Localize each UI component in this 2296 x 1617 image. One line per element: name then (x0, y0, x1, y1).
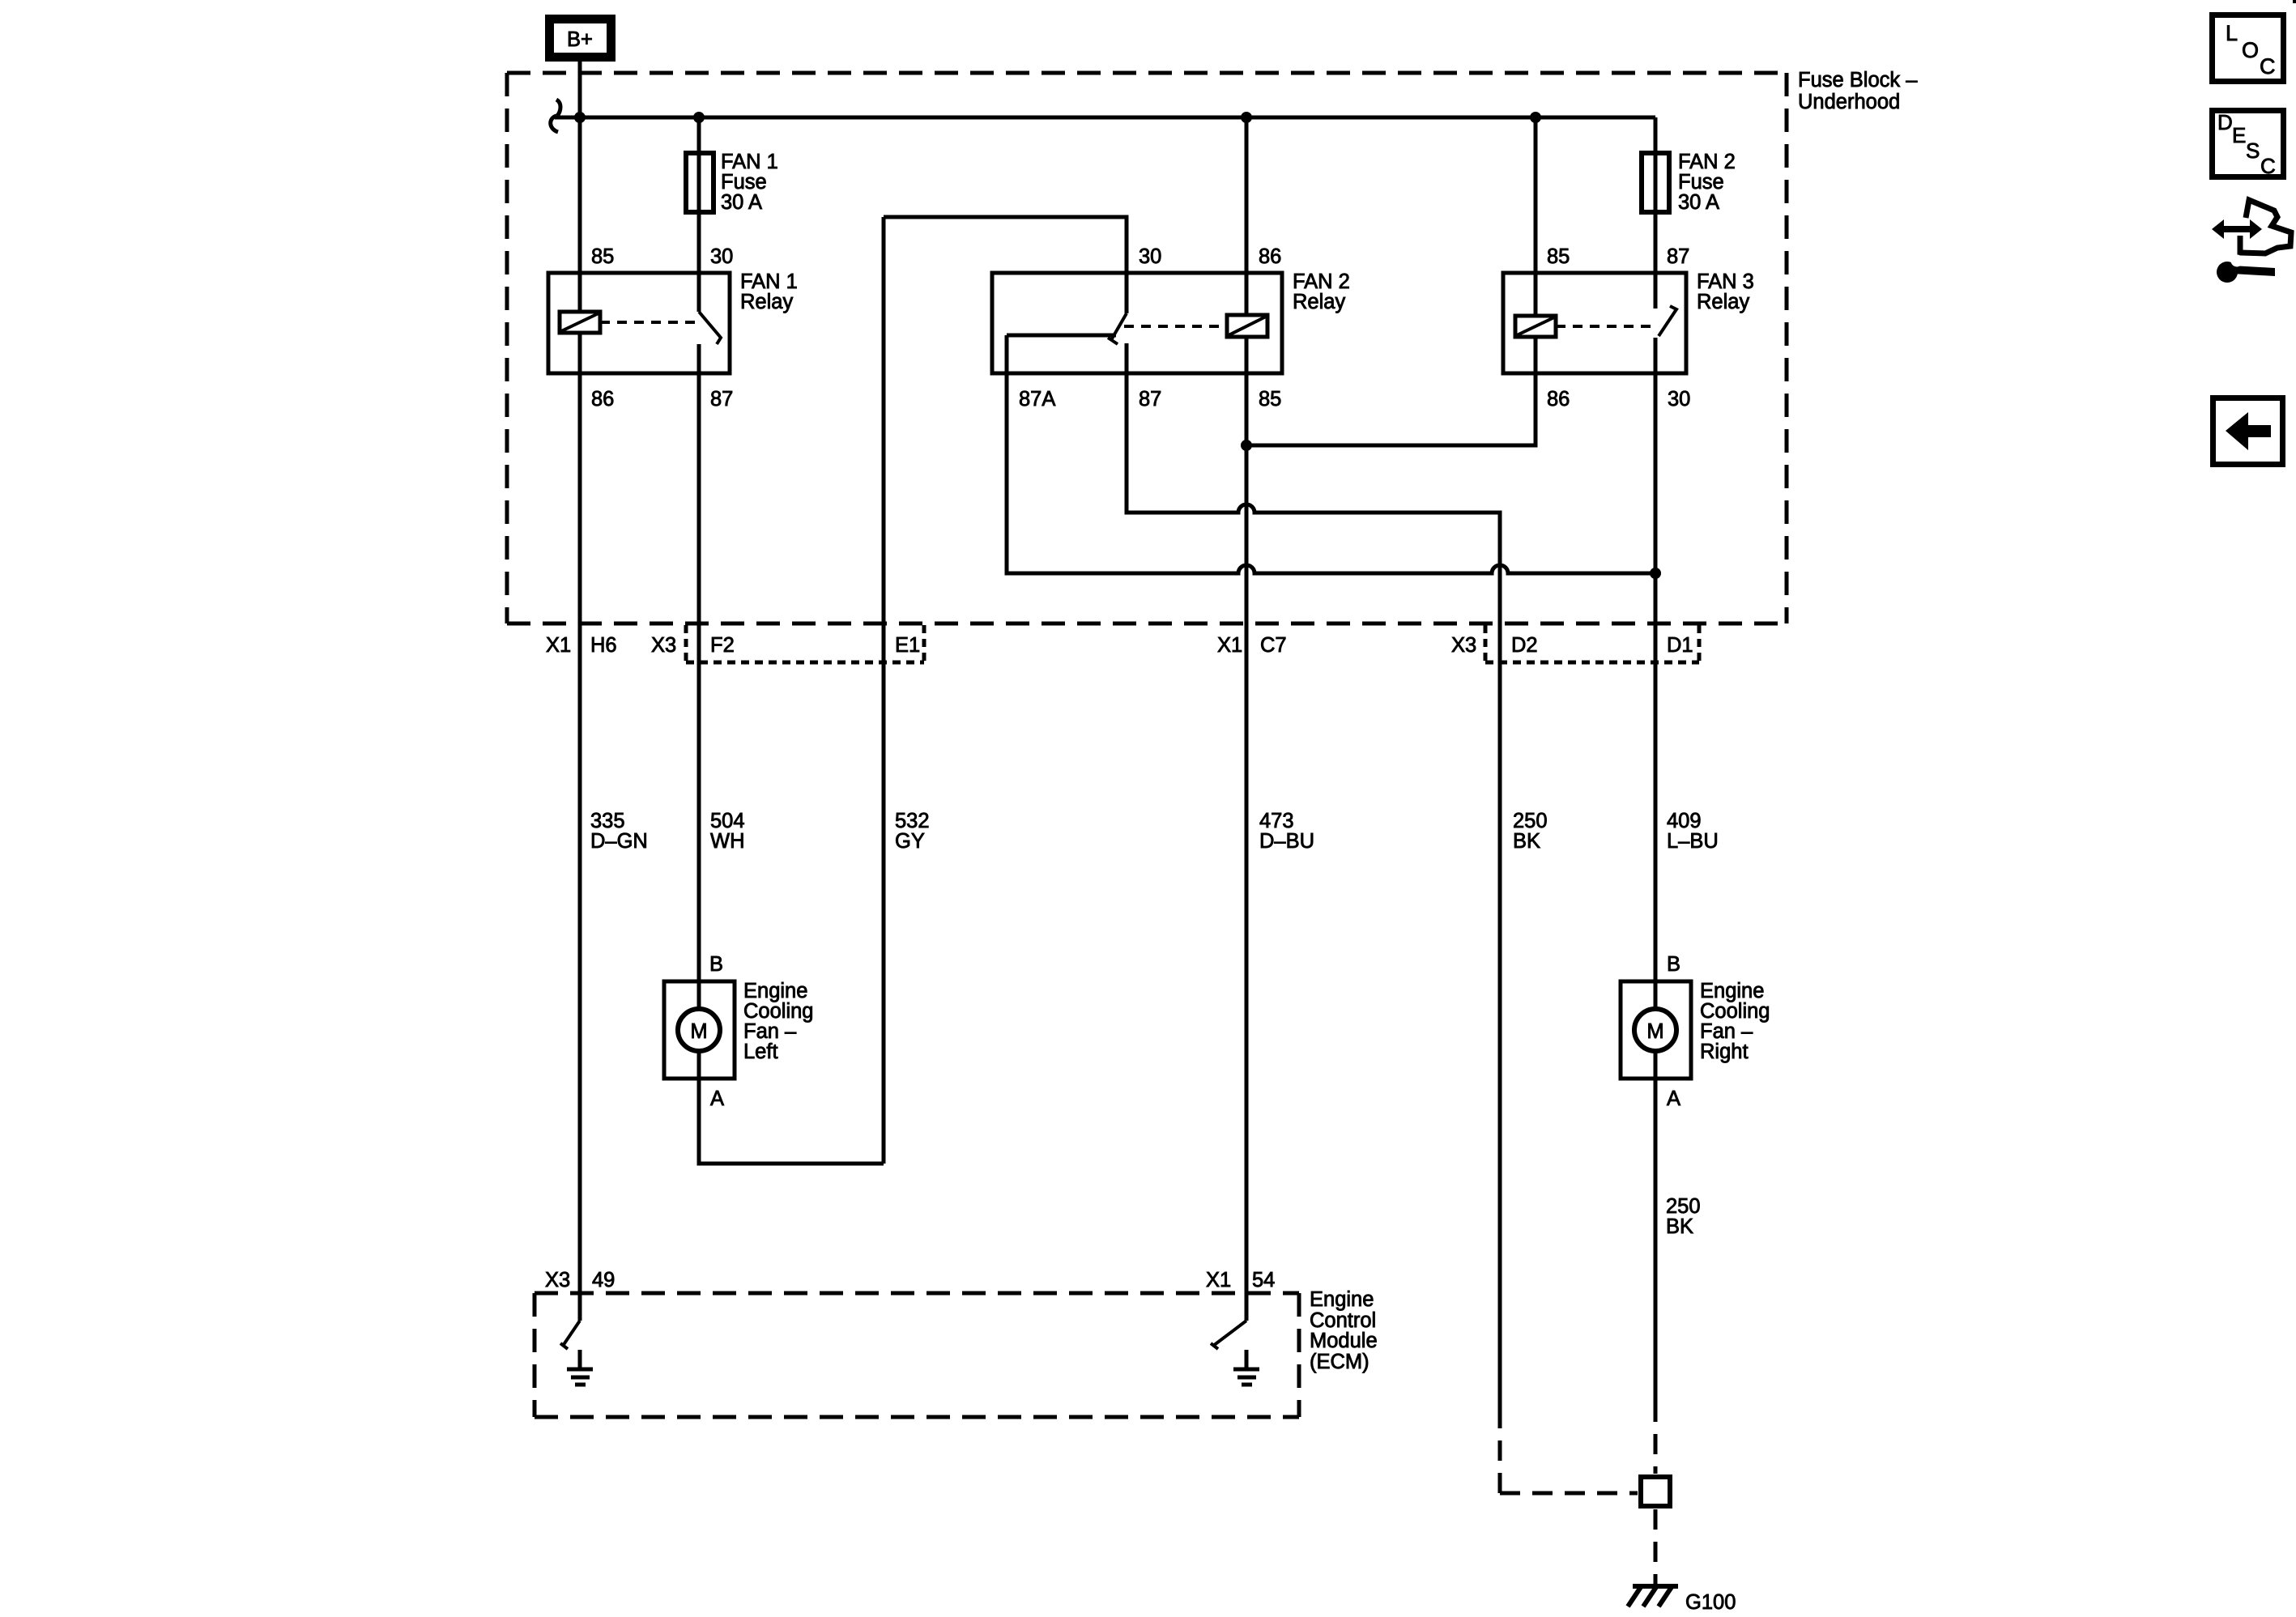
motor M1 left fan (664, 953, 813, 1110)
svg-text:Fuse Block –: Fuse Block – (1798, 69, 1918, 91)
connector labels under fuse block (546, 634, 1693, 657)
svg-text:335: 335 (590, 810, 625, 832)
svg-text:250: 250 (1513, 810, 1548, 832)
svg-text:M: M (1646, 1020, 1663, 1043)
icon LOC (2213, 15, 2284, 82)
svg-text:87: 87 (1667, 245, 1689, 268)
svg-text:S: S (2246, 138, 2260, 163)
node: bus at FAN1 fuse (693, 112, 705, 123)
svg-text:30: 30 (710, 245, 733, 268)
svg-text:X1: X1 (1206, 1269, 1231, 1291)
svg-text:Fuse: Fuse (721, 171, 767, 194)
wire FAN3 85 from bus (1534, 117, 1538, 316)
svg-text:Engine: Engine (743, 980, 807, 1002)
coil-switch dashed link (600, 321, 695, 324)
icon DESC (2213, 110, 2284, 178)
svg-text:54: 54 (1252, 1269, 1275, 1291)
svg-text:BK: BK (1513, 830, 1540, 853)
switch blade FAN2 (1108, 313, 1127, 344)
svg-text:FAN 1: FAN 1 (740, 270, 798, 293)
svg-text:86: 86 (1259, 245, 1281, 268)
svg-text:A: A (710, 1087, 724, 1110)
icon wrench (2217, 255, 2275, 283)
wire tie to FAN3 86 (1246, 337, 1536, 445)
svg-text:49: 49 (592, 1269, 615, 1291)
wire FAN2 87A to FAN3 30 net (1007, 335, 1655, 573)
svg-text:87: 87 (710, 388, 733, 411)
wire labels (590, 810, 1719, 853)
svg-text:L: L (2226, 21, 2238, 45)
svg-text:30: 30 (1668, 388, 1690, 411)
icon back arrow (2213, 398, 2283, 465)
svg-text:504: 504 (710, 810, 745, 832)
svg-text:C: C (2260, 54, 2276, 79)
wire bus to FAN2 fuse (1654, 117, 1658, 309)
ground inside ECM right (1233, 1350, 1259, 1385)
connector ticks X3-D2-D1 box (1485, 625, 1699, 662)
svg-text:(ECM): (ECM) (1310, 1351, 1370, 1373)
wire E1 vertical 532 GY (882, 217, 886, 1164)
svg-text:87: 87 (1139, 388, 1161, 411)
svg-text:Underhood: Underhood (1798, 91, 1900, 113)
svg-text:85: 85 (1259, 388, 1281, 411)
coil FAN1 (560, 312, 600, 333)
node: bus at FAN2 relay 86 (1241, 112, 1252, 123)
ECM dashed box (535, 1293, 1299, 1417)
svg-text:Relay: Relay (740, 291, 793, 313)
svg-text:85: 85 (591, 245, 614, 268)
svg-text:30: 30 (1139, 245, 1161, 268)
node FAN2 85 / FAN3 86 tie (1241, 440, 1252, 451)
ECM driver switch right (1211, 1321, 1246, 1349)
svg-text:B: B (1667, 953, 1680, 976)
svg-text:L–BU: L–BU (1667, 830, 1719, 853)
wire FAN3 30 down to right fan motor (1654, 338, 1658, 1009)
page corner mark (2293, 0, 2296, 3)
ground inside ECM left (567, 1350, 593, 1385)
motor M2 right fan (1621, 953, 1770, 1110)
svg-text:Left: Left (743, 1040, 778, 1063)
fuse F2 FAN2 30A (1642, 153, 1669, 212)
svg-text:250: 250 (1666, 1195, 1701, 1218)
crimp symbol (551, 100, 560, 132)
svg-text:532: 532 (895, 810, 930, 832)
coil FAN2 (1227, 315, 1267, 337)
svg-text:D1: D1 (1667, 634, 1693, 657)
svg-text:FAN 2: FAN 2 (1678, 151, 1736, 173)
svg-text:86: 86 (591, 388, 614, 411)
svg-text:473: 473 (1259, 810, 1294, 832)
icon connector repair arrow (2212, 200, 2291, 253)
svg-text:FAN 3: FAN 3 (1697, 270, 1754, 293)
svg-text:X1: X1 (1217, 634, 1242, 657)
svg-text:O: O (2242, 38, 2259, 62)
relay K1 FAN1 (548, 245, 798, 411)
wire FAN2 relay 30 feed loop from E1 (884, 217, 1127, 313)
switch blade FAN1 (699, 312, 721, 344)
svg-text:Engine: Engine (1310, 1288, 1374, 1311)
svg-text:Right: Right (1700, 1040, 1749, 1063)
svg-text:C: C (2260, 154, 2276, 178)
svg-text:A: A (1667, 1087, 1680, 1110)
svg-text:Module: Module (1310, 1330, 1378, 1352)
svg-text:H6: H6 (590, 634, 617, 657)
svg-text:X3: X3 (545, 1269, 570, 1291)
svg-text:D: D (2217, 110, 2233, 134)
relay K2 FAN2 (992, 245, 1350, 411)
svg-text:Cooling: Cooling (1700, 1000, 1770, 1023)
svg-text:C7: C7 (1260, 634, 1287, 657)
svg-text:E: E (2232, 123, 2246, 147)
svg-text:30 A: 30 A (721, 191, 762, 214)
fuse block underhood dashed box (507, 73, 1787, 623)
wire bus to FAN1 fuse to relay 30 (697, 117, 701, 312)
svg-text:87A: 87A (1019, 388, 1055, 411)
svg-text:30 A: 30 A (1678, 191, 1719, 214)
wire FAN1 87 down to left fan motor (697, 344, 701, 1009)
svg-text:85: 85 (1547, 245, 1570, 268)
svg-text:Fan –: Fan – (1700, 1020, 1753, 1043)
relay K3 FAN3 (1503, 245, 1754, 411)
coil FAN3 (1515, 316, 1556, 337)
svg-text:D2: D2 (1511, 634, 1538, 657)
svg-text:Cooling: Cooling (743, 1000, 813, 1023)
svg-text:B+: B+ (567, 28, 593, 51)
svg-text:Fuse: Fuse (1678, 171, 1724, 194)
svg-text:FAN 2: FAN 2 (1293, 270, 1350, 293)
wire FAN2 87 to D2 (1127, 343, 1500, 1408)
svg-text:GY: GY (895, 830, 925, 853)
node: bus at FAN3 relay 85 (1530, 112, 1541, 123)
wire FAN2 85 down to ECM 54 (1245, 337, 1249, 1321)
wire FAN1 86 down to ECM (578, 333, 582, 1321)
wire FAN2 86 from bus (1245, 117, 1249, 315)
svg-text:D–GN: D–GN (590, 830, 648, 853)
connector ticks X3-F2 box (686, 625, 924, 662)
svg-text:Relay: Relay (1293, 291, 1345, 313)
svg-text:F2: F2 (710, 634, 735, 657)
svg-text:X1: X1 (546, 634, 571, 657)
switch blade FAN3 (1659, 306, 1676, 336)
svg-text:Engine: Engine (1700, 980, 1764, 1002)
svg-text:86: 86 (1547, 388, 1570, 411)
ECM driver switch left (560, 1321, 580, 1349)
svg-text:WH: WH (710, 830, 744, 853)
node 87A net at FAN3 30 (1650, 568, 1661, 579)
svg-text:409: 409 (1667, 810, 1702, 832)
svg-text:E1: E1 (895, 634, 920, 657)
svg-text:B: B (709, 953, 723, 976)
ground G100 chassis symbol (1628, 1586, 1678, 1606)
svg-text:X3: X3 (651, 634, 676, 657)
bus wire (555, 116, 1655, 120)
svg-text:G100: G100 (1685, 1591, 1736, 1614)
svg-text:Fan –: Fan – (743, 1020, 797, 1043)
svg-text:M: M (690, 1020, 707, 1043)
svg-text:FAN 1: FAN 1 (721, 151, 778, 173)
svg-text:Control: Control (1310, 1309, 1376, 1332)
ground splice box G100 (1641, 1477, 1670, 1506)
svg-text:D–BU: D–BU (1259, 830, 1314, 853)
wire B+ to relay coil (578, 62, 582, 312)
fuse F1 FAN1 30A (686, 153, 714, 212)
wire D2 ground pigtail dashed (1500, 1402, 1655, 1585)
svg-text:Relay: Relay (1697, 291, 1749, 313)
svg-text:BK: BK (1666, 1215, 1693, 1238)
wire right motor A ground 250 BK (1654, 1051, 1658, 1402)
node: bus at B+ (574, 112, 586, 123)
87A branch inside relay (1007, 334, 1116, 338)
wire left motor A to E1 (699, 1051, 884, 1164)
B+ battery feed terminal (550, 19, 611, 57)
svg-text:X3: X3 (1451, 634, 1476, 657)
